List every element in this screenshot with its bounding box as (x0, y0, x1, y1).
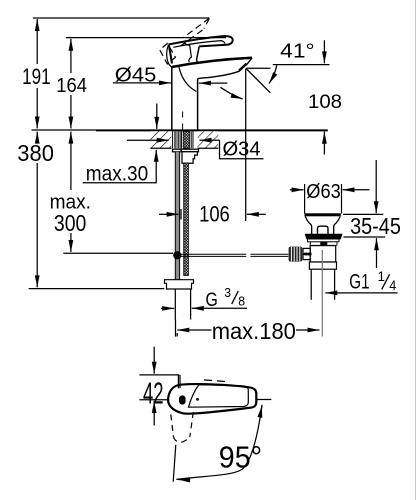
knurled knob (289, 247, 303, 262)
svg-text:Ø63: Ø63 (306, 180, 340, 203)
drain body (310, 246, 336, 262)
handle logo mark (179, 395, 186, 404)
svg-text:300: 300 (54, 210, 86, 236)
scan border right edge (415, 0, 417, 500)
svg-text:Ø34: Ø34 (223, 137, 261, 160)
pop-up horizontal rod (181, 254, 288, 256)
drain plug head (305, 184, 342, 234)
pop-up rod vertical (braided) (184, 163, 189, 276)
95 degree reference leg (173, 445, 176, 482)
node: spout-top reference line (164 level) (66, 37, 226, 39)
G 3/8 tube (175, 289, 190, 320)
svg-text:4: 4 (389, 278, 396, 293)
node: deck reference line left thin (32, 129, 96, 131)
svg-text:380: 380 (17, 140, 54, 166)
svg-text:8: 8 (238, 293, 245, 308)
mounting washer and nut below deck (173, 149, 199, 163)
cartridge dome (167, 43, 192, 67)
ball joint on pop-up rod (173, 251, 181, 259)
dimension max.300 (70, 132, 72, 252)
41 underline (273, 64, 330, 66)
handle hidden top dashes (204, 380, 226, 382)
node: faucet axis centerline dashes (182, 112, 184, 131)
svg-text:max.30: max.30 (86, 162, 148, 186)
faucet spout (172, 58, 252, 67)
svg-text:42: 42 (143, 376, 164, 410)
41 inclined line (246, 68, 270, 92)
svg-text:95°: 95° (219, 440, 262, 475)
node: spout tip level line (246, 67, 271, 69)
dimension 380 (36, 132, 38, 288)
drain slotted band (310, 242, 338, 246)
clamp screw (303, 253, 312, 256)
svg-text:max.180: max.180 (212, 318, 296, 344)
shank black bar below deck (180, 148, 182, 152)
drain centerline (321, 250, 323, 337)
supply pipe below deck (175, 152, 179, 281)
faucet body (172, 67, 198, 130)
svg-text:106: 106 (199, 201, 230, 226)
arc with arrow to spout tip extension (220, 87, 242, 99)
node: 380 bottom reference line (29, 288, 165, 290)
drain flange lip (308, 239, 340, 242)
handle plan view solid (168, 384, 256, 414)
drain flange (305, 234, 342, 239)
svg-text:191: 191 (22, 64, 50, 89)
label G 1 1/4 (349, 269, 396, 294)
shank through deck (173, 131, 193, 148)
node: spout tip extension line (245, 69, 247, 221)
handle swung position dashed (171, 412, 194, 442)
dimension 164 (70, 39, 72, 129)
drain lower nut (309, 262, 336, 269)
deck hatching left block (150, 131, 171, 148)
svg-text:41°: 41° (280, 41, 315, 63)
drain tailpipe (311, 269, 334, 300)
faucet lever (closed) (169, 36, 233, 63)
svg-text:1: 1 (378, 269, 386, 284)
41 leader arc (272, 65, 277, 79)
svg-text:35-45: 35-45 (350, 213, 401, 239)
node: deck top line (96, 129, 328, 131)
spout swing arc (179, 67, 197, 92)
deck hatching right block (198, 131, 219, 148)
spout outlet face (239, 63, 247, 70)
svg-text:164: 164 (56, 74, 87, 97)
node: max.300 bottom reference line (63, 252, 173, 254)
drain rod inlet (303, 248, 310, 259)
dimension 191 (36, 19, 38, 129)
svg-text:108: 108 (308, 91, 342, 113)
G 3/8 connector nut (165, 280, 194, 289)
label G 3/8 (206, 285, 246, 311)
95 degree arc (176, 405, 262, 480)
bottom view: projection stub (176, 333, 178, 337)
lever raised (dashed) (160, 18, 210, 64)
node: top reference line (191 level) (33, 17, 209, 19)
95 degree horizontal leg (256, 399, 271, 401)
svg-text:3: 3 (224, 285, 231, 300)
svg-text:G1: G1 (349, 271, 369, 294)
